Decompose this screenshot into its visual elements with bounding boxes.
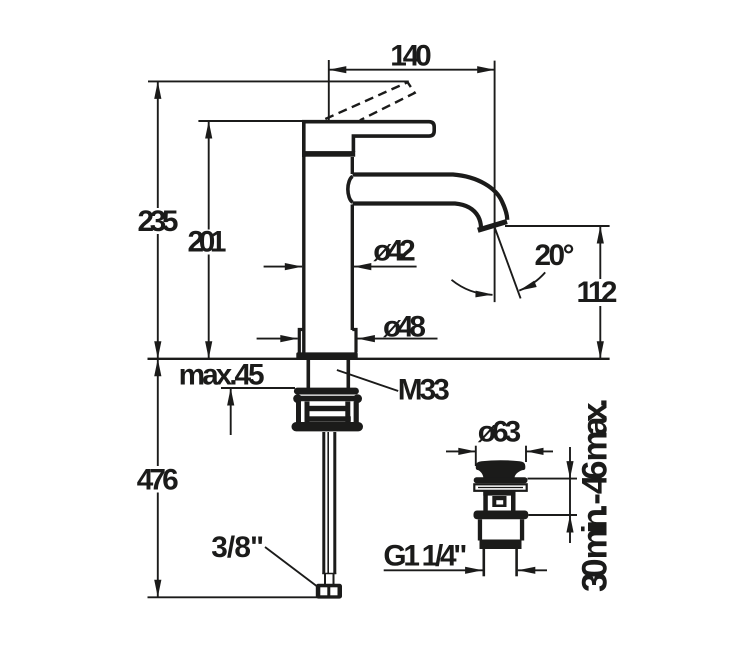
svg-text:ø42: ø42 [373,235,416,268]
svg-text:G1 1/4": G1 1/4" [383,539,467,572]
svg-text:30 min. - 46 max.: 30 min. - 46 max. [575,398,614,592]
svg-text:476: 476 [137,463,179,496]
svg-text:max.45: max.45 [179,359,265,392]
svg-text:235: 235 [138,205,179,238]
svg-text:ø48: ø48 [383,311,426,344]
svg-text:ø63: ø63 [478,416,522,449]
svg-text:201: 201 [188,225,227,258]
svg-text:20°: 20° [535,239,575,272]
svg-text:3/8": 3/8" [211,531,264,564]
svg-text:112: 112 [577,276,618,309]
svg-text:M33: M33 [398,374,450,407]
svg-text:140: 140 [390,39,432,72]
